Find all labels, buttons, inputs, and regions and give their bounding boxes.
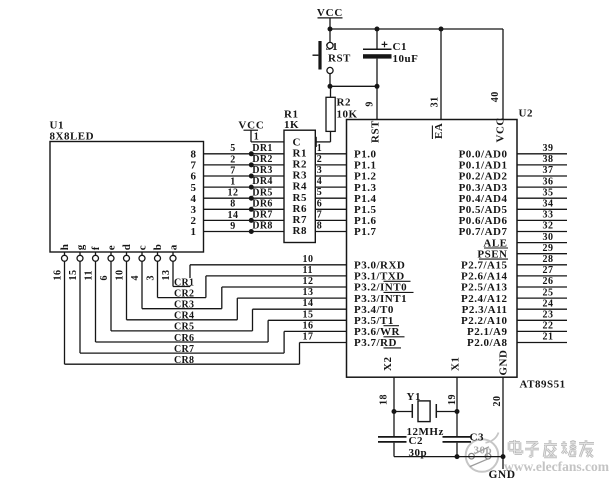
U2 bottom pin name X2: [382, 357, 394, 371]
pin number 13 of U2: [303, 287, 314, 298]
wire X2 net U2 pin 18: [393, 377, 395, 436]
svg-text:8X8LED: 8X8LED: [50, 131, 95, 143]
pin number 10 of U1: [115, 270, 126, 281]
wire R1 to U2 P1.5 pin 6: [315, 208, 346, 210]
pin number 3 of U1: [146, 275, 157, 281]
pin number 14 of U1: [228, 210, 239, 221]
svg-text:d: d: [121, 244, 133, 251]
junction dot net DR1: [249, 151, 254, 156]
svg-text:11: 11: [303, 265, 313, 276]
pin number 5 of U1: [230, 143, 236, 154]
C2 refdes label: [409, 435, 423, 447]
svg-text:1: 1: [230, 177, 236, 188]
wire U2 right pin 29: [517, 253, 567, 255]
svg-text:39: 39: [543, 143, 554, 154]
R2 value label 10K: [337, 109, 358, 121]
net label DR4: [252, 176, 272, 187]
svg-text:CR6: CR6: [174, 333, 194, 344]
svg-text:3: 3: [146, 275, 157, 281]
wire R1 to U2 P1.4 pin 5: [315, 197, 346, 199]
C3 refdes label: [470, 431, 484, 443]
capacitor C3: [443, 437, 472, 457]
svg-text:GND: GND: [497, 350, 509, 376]
wire U1 pin 1 to R1 (row net DR4): [204, 186, 285, 188]
svg-text:DR1: DR1: [252, 143, 272, 154]
U2 right pin names P2.7/A15-P2.0/A8: [461, 260, 507, 350]
wire R1 to U2 P1.0 pin 1: [315, 153, 346, 155]
svg-text:11: 11: [84, 270, 95, 280]
svg-text:30p: 30p: [474, 444, 493, 456]
net label DR2: [252, 154, 272, 165]
net label CR6: [174, 333, 196, 344]
svg-text:DR5: DR5: [252, 187, 272, 198]
U1 right pin names 8..1: [191, 149, 197, 239]
svg-text:19: 19: [447, 394, 458, 405]
svg-text:EA: EA: [433, 123, 445, 139]
U2 right pin name PSEN: [477, 248, 508, 260]
net label CR7: [174, 344, 196, 355]
pin number 40 of U2 VCC: [490, 91, 501, 102]
junction dot RST at C1 leg: [375, 84, 380, 89]
S1 value label RST: [328, 53, 351, 65]
svg-text:www.elecfans.com: www.elecfans.com: [504, 459, 610, 474]
svg-text:10: 10: [115, 270, 126, 281]
U2 refdes label: [519, 108, 533, 120]
wire net CR1 from U1 pin a to U2: [173, 261, 347, 286]
net label DR5: [252, 187, 272, 198]
wire net CR3 from U1 pin c to U2: [142, 261, 347, 308]
junction dot RST at S1 leg: [328, 84, 333, 89]
svg-text:4: 4: [317, 176, 323, 187]
wire U2 right pin 25: [517, 297, 567, 299]
pin number 14 of U2: [303, 298, 314, 309]
svg-text:a: a: [168, 244, 180, 250]
pin number 19 of U2: [447, 394, 458, 405]
U1 bottom pin connector c (pin 4): [139, 252, 145, 261]
pin number 30 of U2: [543, 232, 554, 243]
svg-text:22: 22: [543, 321, 554, 332]
junction dot net DR4: [249, 185, 254, 190]
ground symbol GND: [488, 469, 515, 481]
svg-text:1K: 1K: [284, 119, 299, 131]
svg-text:U2: U2: [519, 108, 533, 120]
svg-text:16: 16: [53, 270, 64, 281]
svg-text:GND: GND: [488, 469, 515, 481]
wire U2 right pin 39: [517, 153, 567, 155]
U2 right pin names P0.0/AD0-P0.7/AD7: [459, 149, 508, 239]
wire U2 right pin 36: [517, 186, 567, 188]
svg-text:34: 34: [543, 199, 554, 210]
pin number 8 of U1: [230, 199, 236, 210]
svg-text:R2: R2: [337, 97, 351, 109]
svg-text:DR2: DR2: [252, 154, 272, 165]
wire U2 right pin 24: [517, 308, 567, 310]
watermark logo needle: [469, 447, 491, 467]
pin number 12 of U2: [303, 276, 314, 287]
net label DR3: [252, 165, 272, 176]
S1 refdes label: [326, 41, 339, 53]
junction dot net DR8: [249, 229, 254, 234]
svg-text:12: 12: [228, 188, 239, 199]
U1 bottom pin connector b (pin 3): [155, 252, 161, 261]
svg-text:30: 30: [543, 232, 554, 243]
svg-text:RST: RST: [370, 120, 382, 143]
svg-text:17: 17: [303, 332, 314, 343]
pushbutton S1 RST: [313, 29, 334, 86]
pin number 23 of U2: [543, 310, 554, 321]
pin number 12 of U1: [228, 188, 239, 199]
wire R1 to U2 P1.2 pin 3: [315, 175, 346, 177]
U2 top pin name RST: [370, 120, 382, 143]
wire net CR6 from U1 pin f to U2: [96, 261, 347, 342]
pin number 10 of U2: [303, 254, 314, 265]
svg-text:CR5: CR5: [174, 322, 194, 333]
svg-text:13: 13: [303, 287, 314, 298]
svg-text:C3: C3: [470, 431, 484, 443]
pin number 17 of U2: [303, 332, 314, 343]
U2 part number AT89S51: [520, 379, 566, 391]
pin number 4 of U2: [317, 176, 323, 187]
net label CR5: [174, 322, 196, 333]
resistor R2: [326, 86, 335, 131]
wire U2 right pin 26: [517, 286, 567, 288]
U1 bottom pin connector a (pin 13): [170, 252, 176, 261]
svg-text:9: 9: [365, 101, 376, 107]
svg-text:10: 10: [303, 254, 314, 265]
svg-text:6: 6: [317, 198, 323, 209]
svg-text:40: 40: [490, 91, 501, 102]
pin number 21 of U2: [543, 332, 554, 343]
svg-text:28: 28: [543, 254, 554, 265]
wire R1 to U2 P1.6 pin 7: [315, 219, 346, 221]
pin number 6 of U1: [99, 275, 110, 281]
pin number 20 of U2: [492, 396, 503, 407]
svg-text:1: 1: [191, 226, 197, 238]
svg-text:8: 8: [230, 199, 236, 210]
wire GND net U2 pin 20: [502, 377, 504, 469]
pin number 6 of U2: [317, 198, 323, 209]
junction dot X1 at crystal: [455, 409, 460, 414]
pin number 7 of U2: [317, 209, 323, 220]
U1 bottom pin connector e (pin 6): [108, 252, 114, 261]
svg-text:23: 23: [543, 310, 554, 321]
power VCC symbol (left, R1 common): [238, 119, 284, 142]
svg-text:e: e: [106, 245, 118, 250]
pin number 25 of U2: [543, 287, 554, 298]
pin number 9 of U1: [230, 221, 236, 232]
svg-text:27: 27: [543, 265, 554, 276]
svg-text:38: 38: [543, 154, 554, 165]
svg-text:15: 15: [303, 309, 314, 320]
pin number 39 of U2: [543, 143, 554, 154]
wire R2 bottom to R1 common pin C: [314, 131, 331, 147]
pin number 29 of U2: [543, 243, 554, 254]
net label CR3: [174, 300, 196, 311]
pin number 9 of U2 RST: [365, 101, 376, 107]
pin number 4 of U1: [130, 275, 141, 281]
junction dot net DR7: [249, 218, 254, 223]
Y1 value label 12MHz: [407, 426, 444, 438]
wire U1 pin 12 to R1 (row net DR5): [204, 197, 285, 199]
wire R1 to U2 P1.7 pin 8: [315, 231, 346, 233]
U1 value label 8X8LED: [50, 131, 95, 143]
svg-text:R8: R8: [293, 225, 307, 237]
IC U2 body: [347, 120, 518, 378]
pin number 5 of U2: [317, 187, 323, 198]
U2 top pin name EA with overline: [432, 123, 445, 139]
svg-text:35: 35: [543, 187, 554, 198]
wire U1 pin 8 to R1 (row net DR6): [204, 208, 285, 210]
pin number 11 of U1: [84, 270, 95, 280]
pin number 8 of U2: [317, 221, 323, 232]
LED matrix U1 body: [50, 142, 204, 253]
svg-text:20: 20: [492, 396, 503, 407]
svg-text:X2: X2: [382, 357, 394, 371]
U1 refdes label: [50, 120, 64, 132]
wire U1 pin 7 to R1 (row net DR3): [204, 175, 285, 177]
pin number 1 of U1: [230, 177, 236, 188]
svg-text:VCC: VCC: [317, 7, 343, 19]
net label DR8: [252, 221, 272, 232]
wire U2 right pin 23: [517, 319, 567, 321]
svg-text:7: 7: [230, 165, 236, 176]
wire net CR8 from U1 pin h to U2: [65, 261, 347, 364]
pin number 15 of U2: [303, 309, 314, 320]
svg-text:3: 3: [317, 165, 323, 176]
pin number 22 of U2: [543, 321, 554, 332]
wire VCC net rail to U2 pin 40: [502, 29, 504, 120]
junction dot net DR6: [249, 207, 254, 212]
pin number 27 of U2: [543, 265, 554, 276]
svg-text:DR7: DR7: [252, 210, 272, 221]
C1 value label 10uF: [393, 53, 419, 65]
pin number 1 of R1 common: [254, 132, 259, 143]
wire RST node S1 to C1 junction: [330, 85, 377, 87]
svg-text:9: 9: [230, 221, 236, 232]
svg-text:2: 2: [317, 154, 323, 165]
wire U2 right pin 33: [517, 219, 567, 221]
U1 bottom pin names h g f e d c b a: [59, 244, 180, 251]
svg-text:g: g: [75, 244, 87, 250]
wire U2 right pin 21: [517, 342, 567, 344]
svg-text:DR8: DR8: [252, 221, 272, 232]
Y1 refdes label: [407, 391, 421, 403]
pin number 36 of U2: [543, 176, 554, 187]
junction dot X2 at crystal: [392, 409, 397, 414]
power VCC symbol (top): [317, 7, 343, 29]
wire net CR4 from U1 pin d to U2: [127, 261, 347, 320]
junction dot net DR2: [249, 162, 254, 167]
svg-text:P1.7: P1.7: [354, 226, 376, 238]
svg-text:26: 26: [543, 276, 554, 287]
wire R1 to U2 P1.1 pin 2: [315, 164, 346, 166]
wire U2 right pin 37: [517, 175, 567, 177]
junction dot ground rail GND pin: [501, 454, 506, 459]
R2 refdes label: [337, 97, 351, 109]
wire net CR5 from U1 pin e to U2: [111, 261, 347, 331]
wire U1 pin 2 to R1 (row net DR2): [204, 164, 285, 166]
svg-text:10K: 10K: [337, 109, 358, 121]
svg-text:14: 14: [303, 298, 314, 309]
watermark text dianzifashaoyou: [509, 440, 594, 457]
pin number 3 of U2: [317, 165, 323, 176]
pin number 35 of U2: [543, 187, 554, 198]
svg-text:31: 31: [430, 96, 441, 107]
svg-text:h: h: [59, 244, 71, 251]
pin number 34 of U2: [543, 199, 554, 210]
svg-text:f: f: [90, 246, 102, 250]
pin number 31 of U2 EA: [430, 96, 441, 107]
pin number 38 of U2: [543, 154, 554, 165]
net label DR1: [252, 143, 272, 154]
pin number 28 of U2: [543, 254, 554, 265]
svg-text:DR3: DR3: [252, 165, 272, 176]
junction dot VCC rail / C1: [375, 27, 380, 32]
junction dot VCC rail / EA pin 31: [439, 27, 444, 32]
svg-text:VCC: VCC: [238, 119, 264, 131]
svg-text:2: 2: [230, 154, 236, 165]
svg-text:CR8: CR8: [174, 355, 194, 366]
pin number 2 of U2: [317, 154, 323, 165]
R1 refdes label: [284, 109, 298, 121]
U2 right pin name ALE: [483, 237, 508, 249]
svg-text:CR1: CR1: [174, 277, 194, 288]
svg-text:CR3: CR3: [174, 300, 194, 311]
wire U2 right pin 28: [517, 264, 567, 266]
svg-text:16: 16: [303, 320, 314, 331]
R1 pin names C R1-R8: [293, 136, 307, 237]
U2 bottom pin name X1: [450, 357, 462, 371]
pin number 11 of U2: [303, 265, 313, 276]
wire EA net rail to U2 pin 31: [440, 29, 442, 120]
pin number 1 of U2: [317, 143, 323, 154]
pin number 13 of U1: [161, 270, 172, 281]
net label CR1: [174, 277, 196, 288]
pin number 2 of U1: [230, 154, 236, 165]
wire U2 right pin 35: [517, 197, 567, 199]
svg-text:37: 37: [543, 165, 554, 176]
U2 top pin name VCC: [495, 117, 507, 142]
svg-text:5: 5: [317, 187, 323, 198]
junction dot net DR3: [249, 174, 254, 179]
pin number 24 of U2: [543, 298, 554, 309]
C3 value label 30p (faded): [474, 444, 493, 456]
U1 bottom pin connector h (pin 16): [62, 252, 68, 261]
pin number 16 of U2: [303, 320, 314, 331]
wire X1 net U2 pin 19: [456, 377, 458, 436]
wire U2 right pin 22: [517, 330, 567, 332]
svg-text:32: 32: [543, 221, 554, 232]
junction dot ground rail X1: [455, 454, 460, 459]
svg-text:12: 12: [303, 276, 314, 287]
wire U2 right pin 27: [517, 275, 567, 277]
svg-text:33: 33: [543, 210, 554, 221]
svg-text:X1: X1: [450, 357, 462, 371]
wire net CR2 from U1 pin b to U2: [158, 261, 347, 297]
svg-text:1: 1: [317, 143, 323, 154]
net label DR6: [252, 198, 272, 209]
svg-text:5: 5: [230, 143, 236, 154]
wire U2 right pin 30: [517, 242, 567, 244]
wire ground rail: [394, 456, 503, 458]
C1 refdes label: [393, 41, 407, 53]
svg-text:25: 25: [543, 287, 554, 298]
svg-text:C1: C1: [393, 41, 407, 53]
svg-text:RST: RST: [328, 53, 351, 65]
svg-text:Y1: Y1: [407, 391, 421, 403]
svg-text:7: 7: [317, 209, 323, 220]
svg-text:CR7: CR7: [174, 344, 194, 355]
svg-text:P2.0/A8: P2.0/A8: [467, 337, 507, 349]
capacitor C1 polarized: [363, 29, 392, 86]
svg-text:CR2: CR2: [174, 288, 194, 299]
pin number 18 of U2: [379, 394, 390, 405]
R1 value label 1K: [284, 119, 299, 131]
svg-text:DR4: DR4: [252, 176, 272, 187]
pin number 26 of U2: [543, 276, 554, 287]
wire U2 right pin 34: [517, 208, 567, 210]
U1 bottom pin connector g (pin 15): [77, 252, 83, 261]
pin number 33 of U2: [543, 210, 554, 221]
wire net CR7 from U1 pin g to U2: [80, 261, 347, 353]
watermark logo circle: [466, 433, 499, 472]
svg-text:AT89S51: AT89S51: [520, 379, 566, 391]
svg-text:C2: C2: [409, 435, 423, 447]
svg-text:6: 6: [99, 275, 110, 281]
pin number 15 of U1: [68, 270, 79, 281]
wire U2 right pin 32: [517, 231, 567, 233]
pin number 7 of U1: [230, 165, 236, 176]
svg-text:24: 24: [543, 298, 554, 309]
wire U2 right pin 38: [517, 164, 567, 166]
net label CR4: [174, 311, 196, 322]
svg-text:15: 15: [68, 270, 79, 281]
svg-text:36: 36: [543, 176, 554, 187]
svg-text:18: 18: [379, 394, 390, 405]
svg-text:10uF: 10uF: [393, 53, 419, 65]
wire RST net to U2 pin 9: [376, 86, 378, 119]
net label CR8: [174, 355, 196, 366]
pin number 16 of U1: [53, 270, 64, 281]
resistor network R1 body: [284, 130, 315, 242]
svg-text:b: b: [152, 244, 164, 251]
wire U1 pin 5 to R1 (row net DR1): [204, 153, 285, 155]
wire U1 pin 14 to R1 (row net DR7): [204, 219, 285, 221]
svg-text:4: 4: [130, 275, 141, 281]
wire VCC top rail: [330, 28, 503, 30]
U2 left pin names P1.0-P1.7: [354, 149, 376, 239]
svg-text:CR4: CR4: [174, 311, 194, 322]
U1 bottom pin connector d (pin 10): [124, 252, 130, 261]
wire R1 to U2 P1.3 pin 4: [315, 186, 346, 188]
crystal Y1: [394, 401, 457, 422]
svg-text:VCC: VCC: [495, 117, 507, 142]
junction dot net DR5: [249, 196, 254, 201]
capacitor C2: [378, 437, 407, 457]
junction dot VCC rail / S1: [328, 27, 333, 32]
U2 bottom pin name GND: [497, 350, 509, 376]
svg-text:DR6: DR6: [252, 198, 272, 209]
pin number 37 of U2: [543, 165, 554, 176]
wire U1 pin 9 to R1 (row net DR8): [204, 231, 285, 233]
svg-text:13: 13: [161, 270, 172, 281]
svg-text:29: 29: [543, 243, 554, 254]
svg-text:1: 1: [254, 132, 259, 143]
pin number 32 of U2: [543, 221, 554, 232]
svg-text:21: 21: [543, 332, 554, 343]
svg-text:14: 14: [228, 210, 239, 221]
net label CR2: [174, 288, 196, 299]
